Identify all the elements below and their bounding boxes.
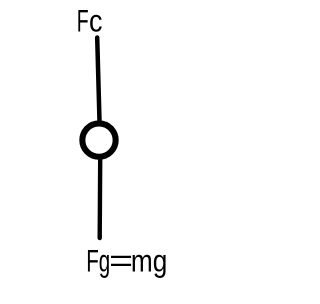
svg-text:Fg: Fg — [86, 243, 110, 278]
wire: upward force vector Fc line — [97, 38, 99, 122]
svg-text:=: = — [109, 243, 133, 278]
svg-text:F: F — [77, 4, 89, 39]
svg-text:c: c — [89, 4, 103, 39]
svg-text:mg: mg — [131, 243, 167, 278]
wire: downward force vector Fg line — [97, 159, 102, 238]
node: mass (circle) — [82, 123, 115, 156]
